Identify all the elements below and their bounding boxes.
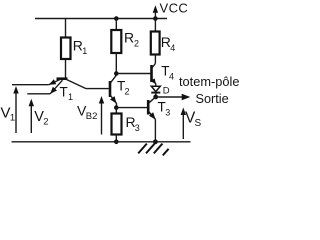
- wire T2 emitter to node B2: [116, 103, 118, 108]
- junction rail-R2: [114, 16, 119, 21]
- junction node S: [153, 95, 158, 100]
- wire rail to R4: [154, 19, 156, 32]
- wire ground rail: [12, 141, 191, 143]
- label D: [163, 85, 170, 96]
- svg-text:4: 4: [169, 72, 174, 82]
- label Sortie: [196, 92, 229, 106]
- label T3: [158, 100, 171, 118]
- resistor R4: [151, 32, 160, 55]
- source arrow VS: [181, 108, 186, 140]
- transistor T1: [49, 79, 86, 94]
- wire node C2 to T4 base: [116, 73, 150, 75]
- svg-text:2: 2: [125, 87, 130, 97]
- resistor R2: [111, 30, 121, 53]
- wire output: [156, 94, 191, 100]
- label R1: [73, 38, 88, 57]
- svg-text:T: T: [60, 85, 68, 100]
- svg-text:VCC: VCC: [160, 0, 189, 15]
- svg-text:3: 3: [165, 108, 170, 118]
- label T4: [161, 64, 174, 82]
- svg-text:1: 1: [82, 46, 87, 56]
- power VCC arrow: [153, 5, 158, 18]
- junction node C2: [114, 71, 119, 76]
- source arrow VB2: [99, 96, 104, 135]
- transistor T4: [151, 64, 156, 85]
- label VS: [185, 110, 202, 130]
- svg-text:D: D: [163, 85, 170, 96]
- wire T1 collector to T2 base: [86, 88, 109, 90]
- ground hatching: [138, 144, 168, 156]
- label T2: [117, 79, 130, 97]
- wire R3 to ground rail: [115, 135, 117, 142]
- svg-text:1: 1: [10, 112, 15, 123]
- svg-text:1: 1: [68, 92, 73, 102]
- wire input 2: [27, 93, 50, 95]
- label totem-pole: [179, 74, 239, 89]
- wire R2 to node C2: [115, 53, 117, 74]
- label VB2: [77, 103, 97, 123]
- junction T3-ground rail: [153, 139, 158, 144]
- svg-text:Sortie: Sortie: [196, 92, 229, 106]
- svg-text:2: 2: [43, 116, 48, 127]
- label R4: [161, 34, 176, 53]
- source arrow V1: [13, 86, 18, 133]
- wire node B2 to T3 base: [116, 107, 147, 109]
- label R3: [126, 114, 140, 133]
- resistor R1: [61, 38, 71, 60]
- label VCC: [160, 0, 189, 15]
- svg-text:B2: B2: [86, 111, 98, 122]
- transistor T2: [110, 75, 117, 103]
- label T1: [60, 85, 74, 102]
- wire input 1: [12, 84, 49, 86]
- svg-text:4: 4: [170, 43, 175, 53]
- junction node B2: [114, 105, 119, 110]
- diode D: [151, 84, 160, 96]
- resistor R3: [112, 114, 122, 135]
- wire node B2 to R3: [115, 108, 117, 114]
- transistor T3: [148, 97, 156, 120]
- wire R1 to T1 base: [65, 59, 67, 78]
- svg-text:S: S: [195, 118, 202, 129]
- svg-text:3: 3: [135, 123, 140, 133]
- wire VCC rail: [35, 18, 167, 20]
- svg-text:R: R: [124, 30, 134, 46]
- junction rail-R4: [153, 16, 158, 21]
- source arrow V2: [29, 99, 34, 133]
- wire rail to R1: [65, 19, 67, 38]
- label R2: [124, 30, 139, 49]
- wire rail to R2: [115, 19, 117, 31]
- label V1: [1, 104, 16, 123]
- svg-text:totem-pôle: totem-pôle: [179, 74, 239, 89]
- label V2: [34, 109, 48, 127]
- wire R4 to T4 collector: [154, 55, 156, 64]
- wire T3 emitter to ground rail: [154, 119, 156, 141]
- svg-text:2: 2: [134, 39, 139, 49]
- junction R3-ground rail: [114, 140, 119, 145]
